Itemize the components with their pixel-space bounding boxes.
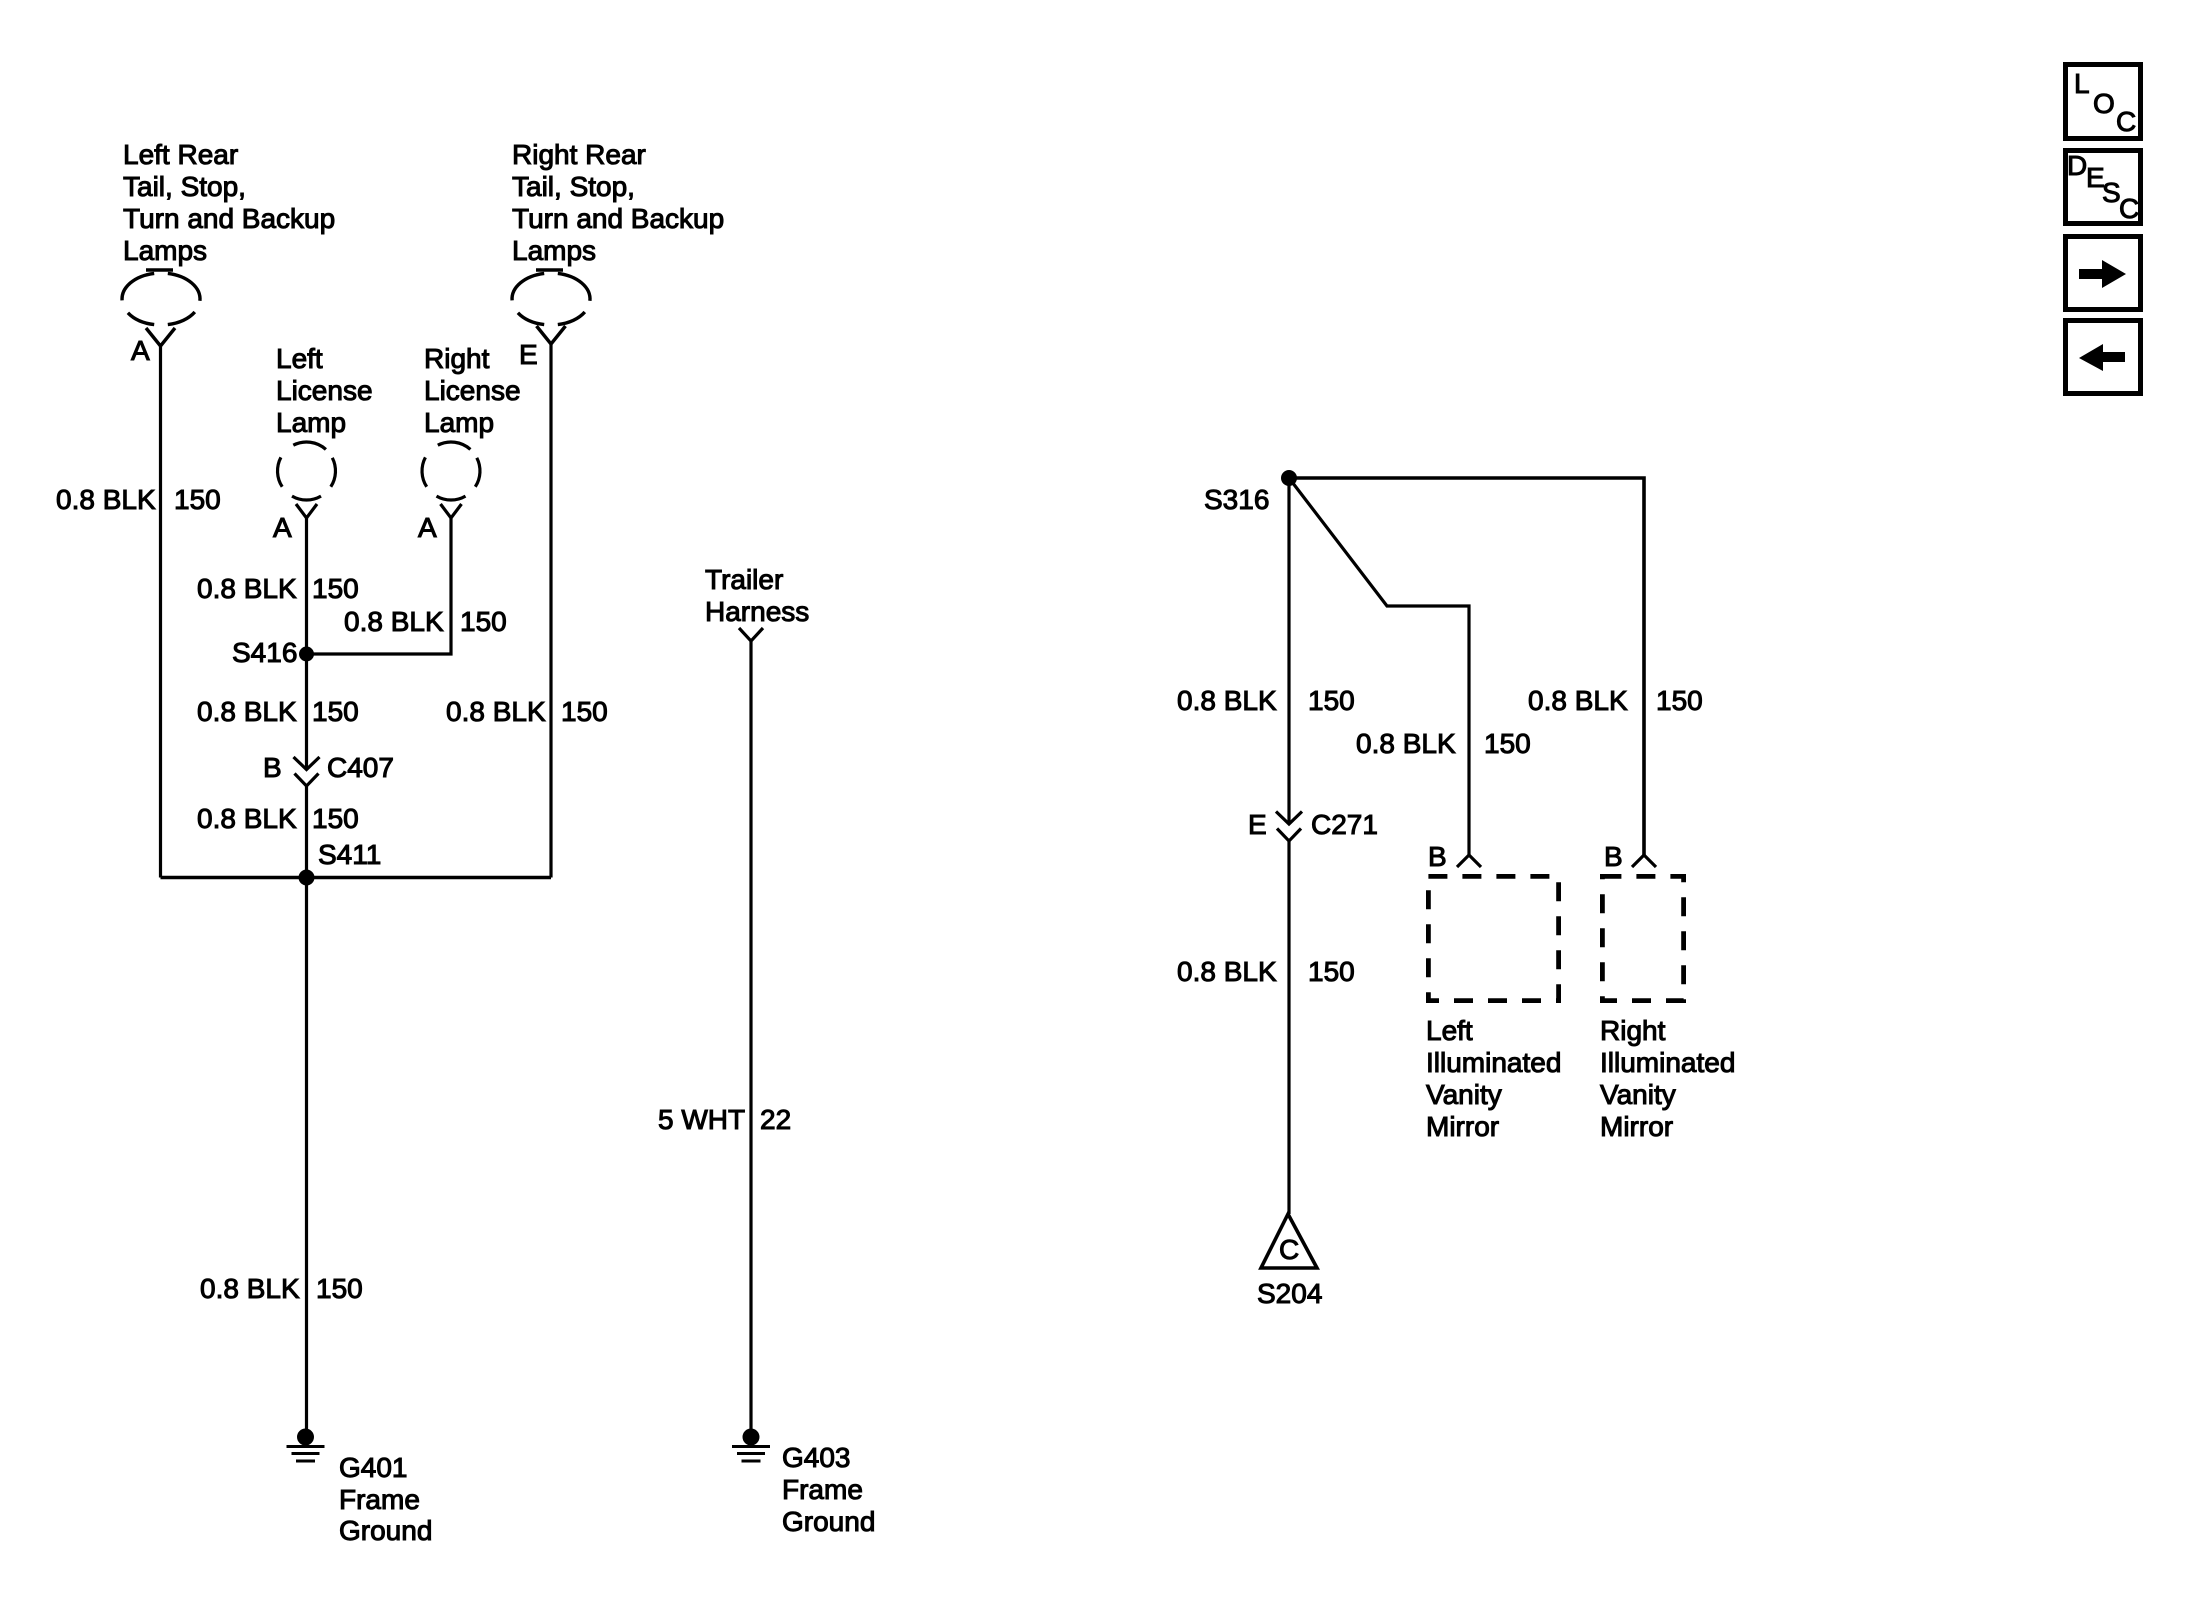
wire: right rear lamp down to S411 bus [549,344,552,878]
svg-text:Ground: Ground [339,1515,432,1546]
svg-text:0.8 BLK: 0.8 BLK [197,573,297,604]
svg-text:150: 150 [312,573,359,604]
svg-text:Right Rear: Right Rear [512,139,646,170]
svg-text:Frame: Frame [782,1474,863,1505]
svg-text:Turn and Backup: Turn and Backup [123,203,335,234]
svg-text:Tail, Stop,: Tail, Stop, [123,171,246,202]
nav box back arrow [2066,321,2141,394]
svg-text:G403: G403 [782,1442,851,1473]
connector C407 pin B [294,757,320,786]
connector pin B of right vanity mirror [1632,855,1656,867]
connector C271 pin E [1276,812,1302,842]
svg-text:E: E [519,339,538,370]
splice S316 [1281,470,1297,486]
svg-text:0.8 BLK: 0.8 BLK [56,484,156,515]
wire: C407 down to S411 [305,786,308,878]
svg-text:S411: S411 [318,839,381,870]
wire: C271 down to S204 [1287,841,1290,1214]
splice S416 [299,647,314,662]
connector pin V of right license lamp [441,504,462,518]
lamp symbol Right Rear Tail/Stop/Turn/Backup [512,270,590,325]
svg-text:0.8 BLK: 0.8 BLK [200,1273,300,1304]
svg-text:Turn and Backup: Turn and Backup [512,203,724,234]
svg-text:O: O [2093,88,2115,119]
svg-text:Frame: Frame [339,1484,420,1515]
svg-text:150: 150 [174,484,221,515]
svg-text:Lamp: Lamp [424,407,494,438]
svg-text:150: 150 [1308,956,1355,987]
svg-text:Left: Left [276,343,323,374]
nav box DESC [2066,150,2141,224]
svg-text:0.8 BLK: 0.8 BLK [1528,685,1628,716]
svg-text:5 WHT: 5 WHT [658,1104,745,1135]
svg-text:C: C [1279,1234,1299,1265]
svg-text:Right: Right [424,343,490,374]
svg-text:A: A [131,335,150,366]
svg-text:Left Rear: Left Rear [123,139,238,170]
svg-text:0.8 BLK: 0.8 BLK [197,803,297,834]
label: Left License Lamp [276,343,373,438]
svg-text:G401: G401 [339,1452,408,1483]
lamp R1 label: Right Rear Tail, Stop, Turn and Backup Lamps [512,139,724,266]
ground G401 [287,1429,325,1462]
svg-text:S316: S316 [1204,484,1269,515]
svg-text:150: 150 [460,606,507,637]
wire: S316 diagonal branch to left vanity mirror [1289,478,1469,855]
svg-text:C407: C407 [327,752,394,783]
svg-text:Mirror: Mirror [1600,1111,1673,1142]
svg-text:Vanity: Vanity [1600,1079,1676,1110]
svg-text:Ground: Ground [782,1506,875,1537]
svg-text:Mirror: Mirror [1426,1111,1499,1142]
svg-text:0.8 BLK: 0.8 BLK [197,696,297,727]
svg-text:0.8 BLK: 0.8 BLK [344,606,444,637]
wire: S316 horizontal branch to right vanity mirror [1289,478,1644,855]
svg-text:C: C [2119,193,2139,224]
svg-text:150: 150 [312,696,359,727]
svg-text:0.8 BLK: 0.8 BLK [1177,956,1277,987]
svg-text:B: B [263,752,282,783]
connector pin V of left rear lamp [146,328,175,346]
lamp symbol Right License Lamp [422,442,480,500]
label: Right License Lamp [424,343,521,438]
svg-text:Trailer: Trailer [705,564,783,595]
svg-text:150: 150 [1308,685,1355,716]
svg-text:Illuminated: Illuminated [1600,1047,1735,1078]
svg-text:B: B [1428,841,1447,872]
nav box LOC [2066,65,2141,139]
svg-text:E: E [1248,809,1267,840]
svg-text:Right: Right [1600,1015,1666,1046]
svg-text:Lamps: Lamps [512,235,596,266]
svg-text:0.8 BLK: 0.8 BLK [446,696,546,727]
wire: S316 down to C271 [1287,478,1290,824]
svg-text:License: License [424,375,521,406]
svg-text:Lamps: Lamps [123,235,207,266]
svg-text:Harness: Harness [705,596,809,627]
svg-text:B: B [1604,841,1623,872]
connector pin V of right rear lamp [537,326,566,344]
component box Left Illuminated Vanity Mirror (dashed) [1428,876,1558,1000]
svg-text:S416: S416 [232,637,297,668]
connector pin B of left vanity mirror [1457,855,1481,867]
svg-text:150: 150 [1656,685,1703,716]
ground G403 [732,1429,770,1462]
splice triangle S204 [1261,1214,1317,1268]
lamp symbol Left Rear Tail/Stop/Turn/Backup [122,270,200,325]
svg-text:License: License [276,375,373,406]
svg-text:22: 22 [760,1104,791,1135]
svg-text:S204: S204 [1257,1278,1322,1309]
svg-text:0.8 BLK: 0.8 BLK [1356,728,1456,759]
lamp symbol Left License Lamp [278,442,336,500]
svg-text:A: A [273,512,292,543]
svg-text:D: D [2067,150,2087,181]
label: Trailer Harness [705,564,809,627]
svg-text:S: S [2102,177,2121,208]
nav box forward arrow [2066,237,2141,310]
wire: right license lamp down then left to S416 [307,518,452,654]
svg-text:Vanity: Vanity [1426,1079,1502,1110]
wire: trailer harness to G403 [749,641,752,1430]
lamp L1 label: Left Rear Tail, Stop, Turn and Backup Lamps [123,139,335,266]
svg-text:C: C [2116,106,2136,137]
svg-text:Illuminated: Illuminated [1426,1047,1561,1078]
wire: left license lamp down to S416 [305,518,308,654]
wire: left rear lamp down to S411 bus [159,346,162,878]
svg-text:Tail, Stop,: Tail, Stop, [512,171,635,202]
component box Right Illuminated Vanity Mirror (dashed) [1602,876,1683,1000]
svg-text:Lamp: Lamp [276,407,346,438]
svg-text:0.8 BLK: 0.8 BLK [1177,685,1277,716]
svg-text:150: 150 [1484,728,1531,759]
svg-text:Left: Left [1426,1015,1473,1046]
svg-text:C271: C271 [1311,809,1378,840]
svg-text:A: A [418,512,437,543]
connector pin V of trailer harness [739,628,763,641]
wire: S411 down to G401 [305,878,308,1431]
svg-text:150: 150 [316,1273,363,1304]
connector pin V of left license lamp [296,504,317,518]
svg-text:L: L [2074,68,2090,99]
wire: S416 down to C407 [305,654,308,770]
svg-text:150: 150 [561,696,608,727]
svg-text:150: 150 [312,803,359,834]
